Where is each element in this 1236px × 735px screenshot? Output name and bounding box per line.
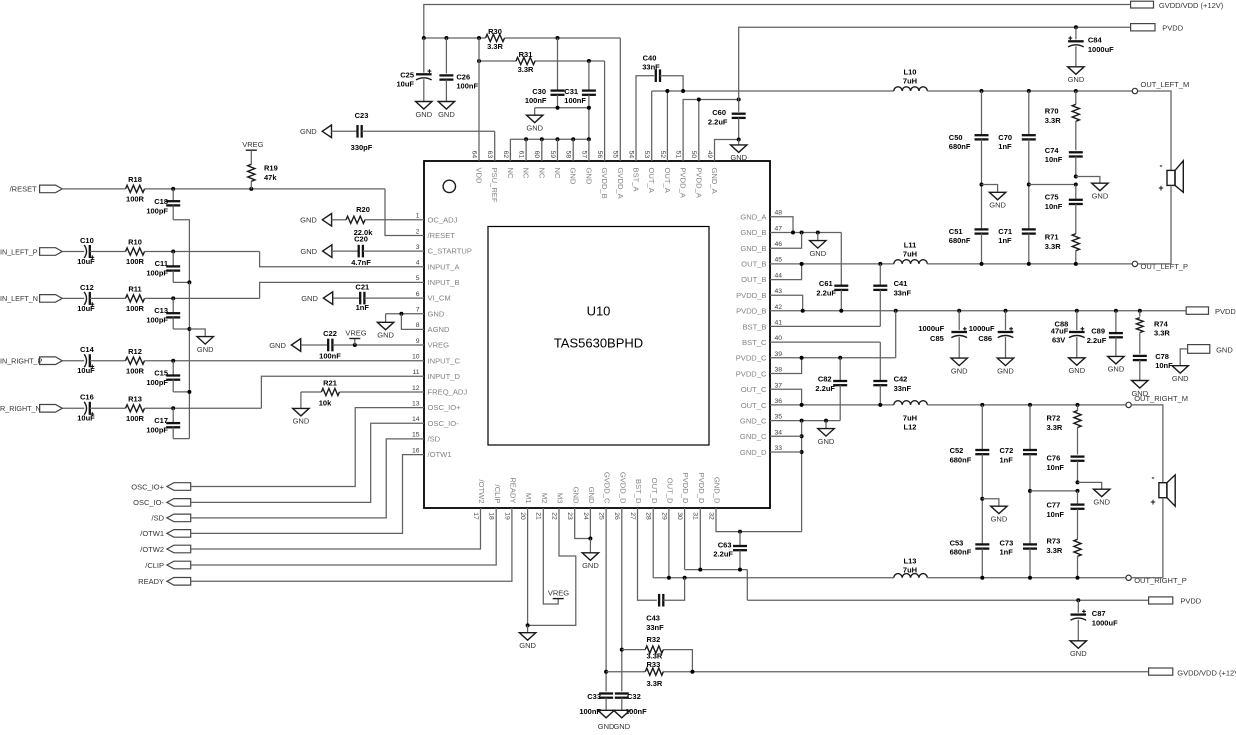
svg-text:OUT_A: OUT_A	[663, 168, 672, 194]
node R18 C18 junction	[171, 187, 175, 191]
svg-text:L13: L13	[904, 556, 917, 565]
ground C87	[1070, 641, 1087, 658]
svg-text:100pF: 100pF	[146, 206, 168, 215]
capacitor C73	[1000, 491, 1038, 578]
capacitor C89	[1087, 311, 1123, 357]
svg-text:OUT_B: OUT_B	[741, 260, 766, 269]
capacitor C75	[1045, 185, 1083, 234]
svg-text:26: 26	[613, 512, 620, 520]
node pins 23 24 junction	[588, 537, 592, 541]
svg-text:C30: C30	[532, 87, 546, 96]
connector R_RIGHT_N	[0, 404, 62, 413]
svg-text:/OTW1: /OTW1	[428, 450, 452, 459]
svg-text:20: 20	[519, 512, 526, 520]
wire IN_LEFT_P to pin 4	[260, 252, 424, 267]
connector PVDD bottom	[1149, 597, 1202, 606]
node PVDD_C row junctions	[800, 356, 843, 360]
node R33 pin25 junction	[604, 670, 608, 674]
wire OUT_LEFT_P to speaker	[1138, 263, 1171, 265]
svg-text:680nF: 680nF	[950, 548, 972, 557]
connector IN_LEFT_N	[0, 294, 62, 303]
svg-text:C17: C17	[154, 416, 168, 425]
svg-text:OUT_D: OUT_D	[650, 478, 659, 504]
svg-text:C12: C12	[80, 283, 94, 292]
svg-text:C53: C53	[950, 538, 964, 547]
svg-text:OUT_C: OUT_C	[741, 385, 767, 394]
resistor R33	[645, 660, 663, 688]
wire M1 pin 20	[527, 508, 529, 625]
node OUT_RIGHT_M rail junctions	[980, 403, 1079, 407]
svg-text:VREG: VREG	[242, 140, 263, 149]
capacitor C43 bootstrap D	[646, 594, 664, 632]
svg-text:49: 49	[706, 151, 713, 159]
svg-text:10uF: 10uF	[77, 257, 95, 266]
svg-text:GND: GND	[1108, 365, 1125, 374]
svg-text:29: 29	[660, 512, 667, 520]
svg-text:OSC_IO-: OSC_IO-	[428, 419, 460, 428]
ground C88	[1068, 358, 1085, 375]
wire PSU_REF pin 63	[494, 131, 496, 161]
wire collector to ground	[189, 329, 205, 337]
svg-text:R13: R13	[128, 395, 142, 404]
svg-text:100R: 100R	[126, 304, 145, 313]
svg-text:NC: NC	[553, 168, 562, 179]
svg-text:C31: C31	[564, 87, 578, 96]
svg-text:3.3R: 3.3R	[1045, 116, 1061, 125]
node OUT_D rail junctions	[667, 576, 687, 580]
wire GVDD_C pin 25	[605, 508, 607, 691]
svg-text:C32: C32	[627, 692, 641, 701]
node C13 collector junction	[187, 327, 191, 331]
U10 top pin names and numbers 64-49	[470, 151, 719, 203]
speaker right channel	[1150, 473, 1175, 508]
ground C60	[730, 140, 747, 163]
svg-text:100R: 100R	[126, 366, 145, 375]
svg-text:C21: C21	[355, 283, 369, 292]
svg-text:21: 21	[535, 512, 542, 520]
capacitor C11	[146, 252, 180, 283]
svg-text:C71: C71	[998, 227, 1012, 236]
wire C52 C53 mid to ground	[982, 499, 999, 507]
wire /SD to pin 15	[191, 439, 424, 518]
svg-text:33nF: 33nF	[894, 384, 912, 393]
node C72 C73 midpoint	[1028, 489, 1032, 493]
wire /RESET row	[62, 188, 385, 190]
svg-text:1000uF: 1000uF	[969, 324, 995, 333]
capacitor C26	[439, 38, 478, 102]
node OUT_B rail junctions	[800, 262, 883, 266]
resistor R18	[126, 175, 145, 203]
svg-text:43: 43	[775, 288, 783, 295]
svg-text:BST_C: BST_C	[742, 338, 767, 347]
pin-1 marker circle	[443, 180, 455, 192]
capacitor C33	[579, 692, 613, 716]
wire C10 to R10	[90, 251, 126, 253]
svg-text:C43: C43	[646, 614, 660, 623]
wire R31 supply row	[479, 60, 605, 62]
svg-text:GND: GND	[269, 341, 286, 350]
svg-text:VREG: VREG	[345, 329, 366, 338]
capacitor C82	[815, 358, 847, 421]
node PVDD mid rail junctions	[801, 309, 1142, 313]
wire IN_RIGHT_P to pin 10	[145, 360, 425, 362]
connector GND mid	[1188, 345, 1234, 355]
svg-text:60: 60	[533, 151, 540, 159]
svg-text:GND: GND	[997, 366, 1014, 375]
svg-text:C73: C73	[1000, 538, 1014, 547]
svg-text:PVDD_A: PVDD_A	[679, 168, 688, 199]
svg-text:/CLIP: /CLIP	[493, 485, 502, 504]
node PVDD_A row junctions	[697, 98, 741, 102]
wire IN_LEFT_N to pin 5	[260, 282, 424, 298]
svg-text:BST_D: BST_D	[634, 479, 643, 504]
svg-text:12: 12	[412, 385, 420, 392]
wire PVDD_B pins 42 43	[770, 295, 1186, 310]
capacitor C18	[146, 189, 180, 220]
svg-text:6: 6	[416, 291, 420, 298]
svg-text:10nF: 10nF	[1045, 202, 1063, 211]
svg-text:PVDD_D: PVDD_D	[681, 473, 690, 504]
svg-text:GVDD_B: GVDD_B	[600, 168, 609, 199]
svg-text:R10: R10	[128, 238, 142, 247]
wire C74 C75 mid to ground	[1076, 177, 1100, 184]
svg-text:VREG: VREG	[548, 588, 569, 597]
svg-text:GND: GND	[991, 515, 1008, 524]
capacitor C25	[396, 38, 431, 102]
wire AGND pin 8 link	[401, 314, 424, 330]
ground input caps	[197, 337, 214, 354]
svg-text:10uF: 10uF	[396, 79, 414, 88]
capacitor C20	[332, 234, 424, 267]
svg-text:GND: GND	[584, 168, 593, 185]
svg-text:33nF: 33nF	[646, 623, 664, 632]
svg-text:U10: U10	[587, 304, 611, 319]
svg-text:PVDD: PVDD	[1180, 597, 1201, 606]
capacitor C15	[146, 361, 180, 392]
svg-text:R32: R32	[647, 635, 661, 644]
svg-text:TAS5630BPHD: TAS5630BPHD	[554, 336, 643, 351]
svg-text:46: 46	[775, 241, 783, 248]
ground C84	[1068, 67, 1085, 84]
svg-text:INPUT_D: INPUT_D	[428, 372, 461, 381]
svg-text:/RESET: /RESET	[428, 231, 456, 240]
wire /CLIP to pin 18	[191, 508, 497, 565]
svg-text:GND_D: GND_D	[713, 477, 722, 504]
svg-text:27: 27	[629, 512, 636, 520]
inductor L11	[894, 240, 928, 264]
svg-text:39: 39	[775, 351, 783, 358]
svg-text:35: 35	[775, 414, 783, 421]
resistor R21	[319, 378, 340, 407]
svg-text:GVDD/VDD (+12V): GVDD/VDD (+12V)	[1159, 1, 1224, 10]
svg-text:GND: GND	[569, 168, 578, 185]
wire NC pins 62-57 stubs	[510, 139, 589, 161]
svg-text:62: 62	[502, 151, 509, 159]
svg-text:C42: C42	[894, 375, 908, 384]
wire GND_C GND_D collector	[801, 421, 803, 532]
svg-text:30: 30	[676, 512, 683, 520]
svg-text:R71: R71	[1045, 233, 1059, 242]
wire C12 to R11	[90, 297, 126, 299]
svg-text:100nF: 100nF	[456, 81, 478, 90]
ground GND connector	[1172, 366, 1189, 383]
svg-text:31: 31	[692, 512, 699, 520]
svg-text:44: 44	[775, 272, 783, 279]
svg-text:GND: GND	[613, 722, 630, 731]
svg-text:C52: C52	[950, 446, 964, 455]
svg-text:40: 40	[775, 335, 783, 342]
svg-text:GND: GND	[1172, 374, 1189, 383]
svg-text:L11: L11	[904, 240, 917, 249]
node C87 junction	[1076, 598, 1080, 602]
connector GVDD/VDD (+12V) top	[1131, 1, 1224, 10]
wire /OTW2 to pin 17	[191, 508, 481, 549]
svg-text:GND: GND	[598, 722, 615, 731]
connector OSC_IO-	[133, 498, 191, 507]
svg-text:M1: M1	[524, 493, 533, 504]
svg-text:PVDD_B: PVDD_B	[736, 307, 766, 316]
svg-text:C25: C25	[400, 70, 414, 79]
capacitor C23	[332, 111, 495, 152]
svg-text:1nF: 1nF	[998, 236, 1012, 245]
capacitor C52	[950, 405, 990, 499]
svg-text:L12: L12	[904, 423, 917, 432]
U10 bottom pin names and numbers 17-32	[472, 472, 722, 520]
svg-text:19: 19	[503, 512, 510, 520]
wire PVDD_A row	[683, 100, 739, 162]
svg-text:C86: C86	[978, 334, 992, 343]
svg-text:READY: READY	[509, 477, 518, 503]
wire /RESET to pin 2	[385, 189, 424, 236]
svg-text:3.3R: 3.3R	[487, 42, 503, 51]
svg-text:BST_B: BST_B	[742, 322, 766, 331]
svg-text:+: +	[1158, 183, 1163, 193]
ground pins 7 8	[377, 314, 394, 340]
svg-text:/OTW1: /OTW1	[140, 529, 164, 538]
op-amp U10 TAS5630BPHD body	[424, 161, 770, 508]
ground C22	[269, 339, 300, 352]
wire OUT_A pins 53 52 risers	[652, 91, 668, 161]
svg-text:54: 54	[627, 151, 634, 159]
svg-text:10: 10	[412, 353, 420, 360]
svg-text:GND: GND	[519, 641, 536, 650]
svg-text:GND: GND	[809, 249, 826, 258]
svg-text:2.2uF: 2.2uF	[708, 117, 728, 126]
capacitor C76	[1047, 454, 1085, 483]
ground C21	[301, 292, 332, 305]
wire input cap collector	[188, 282, 190, 438]
ground C20	[300, 245, 331, 258]
svg-text:INPUT_C: INPUT_C	[428, 356, 461, 365]
wire OUT_B rail pins 45 44	[770, 264, 894, 280]
svg-text:L10: L10	[904, 67, 917, 76]
svg-text:42: 42	[775, 304, 783, 311]
svg-text:7: 7	[416, 307, 420, 314]
wire PVDD_D row pins 30 31	[685, 508, 748, 570]
wire FREQ_ADJ row	[301, 391, 424, 393]
svg-text:14: 14	[412, 416, 420, 423]
node OUT_RIGHT_P rail junctions	[980, 576, 1079, 580]
wire C11 to collector	[173, 281, 189, 283]
capacitor C13	[146, 298, 180, 329]
ground C85	[951, 358, 968, 375]
svg-text:100R: 100R	[126, 257, 145, 266]
capacitor C61	[816, 233, 848, 311]
svg-text:41: 41	[775, 320, 783, 327]
svg-text:GVDD_C: GVDD_C	[603, 472, 612, 504]
svg-text:OUT_B: OUT_B	[741, 275, 766, 284]
svg-text:/SD: /SD	[151, 514, 164, 523]
svg-text:100pF: 100pF	[146, 316, 168, 325]
svg-text:GND_A: GND_A	[740, 212, 767, 221]
svg-text:READY: READY	[138, 577, 164, 586]
node C50 C51 midpoint	[980, 183, 984, 187]
ground pins 23 24	[582, 539, 599, 571]
svg-text:3.3R: 3.3R	[647, 679, 663, 688]
svg-text:1000uF: 1000uF	[1092, 618, 1118, 627]
wire GND pin 7 row	[386, 313, 424, 315]
ground C76 C77	[1093, 489, 1110, 506]
svg-text:NC: NC	[537, 168, 546, 179]
ground R21	[293, 392, 310, 426]
svg-text:R70: R70	[1045, 107, 1059, 116]
svg-text:AGND: AGND	[428, 325, 450, 334]
svg-text:C_STARTUP: C_STARTUP	[428, 247, 472, 256]
svg-text:3.3R: 3.3R	[1047, 423, 1063, 432]
node PVDD_D row junctions	[698, 568, 742, 572]
wire BST_A pin 54 to C40	[636, 76, 654, 161]
svg-text:10nF: 10nF	[1155, 361, 1173, 370]
wire R11 to jog	[145, 297, 260, 299]
node R10 C11 junction	[171, 250, 175, 254]
resistor R12	[126, 347, 145, 375]
svg-text:R18: R18	[128, 175, 142, 184]
svg-text:GND: GND	[300, 216, 317, 225]
svg-text:INPUT_A: INPUT_A	[428, 262, 461, 271]
capacitor C63	[713, 532, 747, 570]
wire BST_C pin 40	[770, 341, 880, 343]
svg-text:GVDD_D: GVDD_D	[618, 472, 627, 504]
node VREG tap pin 9	[345, 329, 366, 348]
node C15 collector junction	[187, 390, 191, 394]
svg-text:10uF: 10uF	[77, 414, 95, 423]
svg-text:PVDD_B: PVDD_B	[736, 291, 766, 300]
wire R33 row to GVDD connector	[606, 671, 1149, 673]
U10 right pin names and numbers 48-33	[736, 210, 783, 457]
svg-text:GND: GND	[571, 487, 580, 504]
ground C89	[1108, 356, 1125, 373]
node R19 junction	[249, 187, 253, 191]
svg-text:2.2uF: 2.2uF	[815, 384, 835, 393]
svg-text:GND_B: GND_B	[740, 228, 766, 237]
svg-text:1000uF: 1000uF	[918, 324, 944, 333]
svg-text:M3: M3	[556, 493, 565, 504]
wire GND connector drop	[1180, 349, 1187, 366]
svg-text:C18: C18	[154, 197, 168, 206]
wire R10 to jog	[145, 251, 260, 253]
svg-text:10k: 10k	[319, 399, 332, 408]
svg-text:PVDD_A: PVDD_A	[694, 168, 703, 199]
svg-text:51: 51	[675, 151, 682, 159]
wire OUT_D rail pins 28 29	[653, 508, 894, 578]
capacitor C70	[998, 91, 1036, 185]
connector GVDD/VDD (+12V) bottom	[1149, 668, 1236, 677]
svg-text:GND: GND	[1216, 346, 1233, 355]
wire READY to pin 19	[191, 508, 512, 581]
connector OSC_IO+	[131, 482, 190, 491]
wire C14 to R12	[90, 360, 126, 362]
svg-text:C14: C14	[80, 345, 95, 354]
svg-text:25: 25	[598, 512, 605, 520]
svg-text:17: 17	[472, 512, 479, 520]
wire R32 row	[622, 650, 693, 672]
node M1 M3 junction	[526, 623, 530, 627]
svg-text:18: 18	[488, 512, 495, 520]
svg-text:PVDD_D: PVDD_D	[697, 473, 706, 504]
svg-text:GND: GND	[951, 366, 968, 375]
svg-text:C74: C74	[1045, 146, 1060, 155]
node R72 C76 junction	[1076, 480, 1080, 493]
svg-text:GND: GND	[587, 487, 596, 504]
svg-text:C60: C60	[712, 108, 726, 117]
svg-text:OUT_LEFT_M: OUT_LEFT_M	[1141, 80, 1190, 89]
svg-text:15: 15	[412, 432, 420, 439]
node R13 C17 junction	[171, 406, 175, 410]
svg-text:100nF: 100nF	[319, 352, 341, 361]
svg-text:C11: C11	[155, 259, 168, 268]
svg-text:R21: R21	[323, 378, 337, 387]
node R70 C74 junction	[1074, 175, 1078, 187]
svg-text:INPUT_B: INPUT_B	[428, 278, 460, 287]
capacitor C71	[998, 185, 1036, 264]
svg-text:GND: GND	[300, 127, 317, 136]
svg-text:GND: GND	[1068, 366, 1085, 375]
wire M2 pin 21 to VREG	[543, 508, 558, 604]
svg-text:57: 57	[580, 151, 587, 159]
svg-text:C75: C75	[1045, 193, 1059, 202]
capacitor C51	[949, 185, 989, 264]
svg-text:OUT_D: OUT_D	[666, 478, 675, 504]
capacitor C42 bootstrap C	[873, 342, 911, 405]
svg-text:48: 48	[775, 210, 783, 217]
svg-text:45: 45	[775, 257, 783, 264]
svg-text:64: 64	[470, 151, 477, 159]
svg-text:4.7nF: 4.7nF	[351, 258, 371, 267]
svg-text:GND: GND	[438, 110, 455, 119]
node NC bus junctions	[524, 137, 591, 141]
svg-text:C85: C85	[930, 334, 944, 343]
svg-text:C13: C13	[154, 306, 168, 315]
resistor R20	[346, 205, 373, 237]
wire GND_C pin 35 row	[770, 420, 840, 422]
capacitor C84	[1068, 25, 1114, 67]
svg-text:GND_C: GND_C	[740, 432, 767, 441]
svg-text:/OTW2: /OTW2	[477, 479, 486, 503]
svg-text:8: 8	[416, 322, 420, 329]
svg-text:2.2uF: 2.2uF	[713, 550, 733, 559]
ground C74 C75	[1092, 183, 1109, 200]
wire GND_A pin 48 jog	[770, 217, 793, 233]
node VREG tap M2	[548, 588, 569, 598]
connector READY	[138, 577, 191, 586]
svg-text:C20: C20	[354, 234, 368, 243]
svg-text:680nF: 680nF	[950, 455, 972, 464]
svg-text:7uH: 7uH	[903, 76, 917, 85]
wire PVDD bottom rail	[747, 599, 1148, 601]
node OUT_LEFT_M rail junctions	[980, 89, 1078, 93]
wire C72 mid link	[1030, 490, 1078, 492]
svg-text:50: 50	[690, 151, 697, 159]
